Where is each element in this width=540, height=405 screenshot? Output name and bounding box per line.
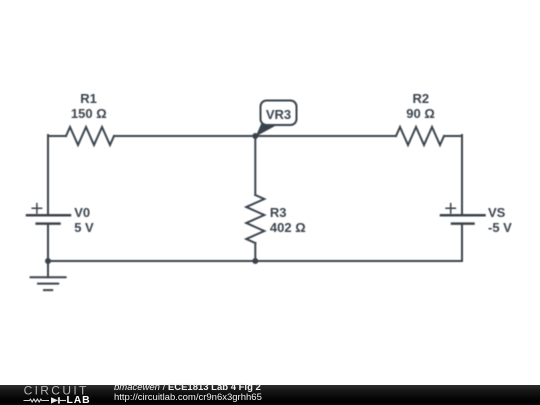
- svg-text:R1: R1: [80, 91, 97, 106]
- svg-text:VS: VS: [488, 205, 506, 220]
- svg-text:R3: R3: [270, 205, 287, 220]
- svg-text:V0: V0: [74, 205, 90, 220]
- svg-text:R2: R2: [412, 91, 429, 106]
- svg-text:5 V: 5 V: [74, 220, 94, 235]
- svg-text:402 Ω: 402 Ω: [270, 220, 306, 235]
- svg-text:150 Ω: 150 Ω: [71, 106, 107, 121]
- svg-text:VR3: VR3: [266, 107, 291, 122]
- svg-text:-5 V: -5 V: [488, 220, 512, 235]
- svg-text:90 Ω: 90 Ω: [406, 106, 435, 121]
- svg-text:LAB: LAB: [67, 395, 91, 405]
